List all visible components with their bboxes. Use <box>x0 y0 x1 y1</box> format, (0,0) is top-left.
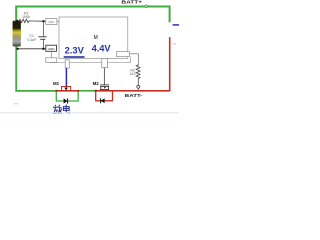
svg-text:.......: ....... <box>76 36 87 40</box>
wire: rail red M2 to right edge <box>96 90 170 92</box>
node: green junction circle on top rail <box>145 5 148 8</box>
M1 body-diode loop (green) <box>56 91 78 101</box>
svg-text:M2: M2 <box>93 81 100 86</box>
svg-text:4.4V: 4.4V <box>92 44 111 54</box>
battery cell B1 <box>13 21 21 47</box>
wire: rail red across M1 <box>57 90 78 92</box>
wire: CS to R2 <box>129 54 138 65</box>
svg-text:VDD: VDD <box>48 20 55 24</box>
capacitor C1 <box>42 21 44 36</box>
resistor R1 <box>17 19 46 22</box>
wire: cell negative down + bottom rail (green) <box>16 46 58 91</box>
svg-text:1K2: 1K2 <box>130 72 136 76</box>
M2 body-diode loop (red) <box>96 91 113 101</box>
node: red dot M1 loop right <box>77 90 79 92</box>
svg-text:M: M <box>94 35 98 41</box>
svg-text:100k: 100k <box>22 15 30 19</box>
wire: stub GND box to lower box <box>51 51 53 58</box>
label: blue underline bar <box>64 56 85 58</box>
svg-text:M1: M1 <box>53 81 60 86</box>
wire: M1 gate (blue) <box>65 68 67 86</box>
wire: BATT+ top rail (green) <box>16 7 169 47</box>
battery terminal tick (faint) <box>173 42 176 45</box>
svg-text:0.1uF: 0.1uF <box>28 38 37 42</box>
divider line at bottom <box>0 112 179 113</box>
node: red dot M1 loop left <box>55 90 57 92</box>
node: junction dot R1 left on green rail <box>16 20 18 22</box>
diode D2 (body diode of M2) <box>101 98 105 103</box>
faint minus mark near cell bottom <box>14 103 18 104</box>
pin VDD box <box>46 19 57 25</box>
node: junction dot GND-left <box>16 48 18 50</box>
svg-text:2.3V: 2.3V <box>65 46 84 56</box>
wire: BATT- right riser (red) <box>169 37 171 91</box>
pin GND box <box>46 45 57 51</box>
wire: R2 circle to BATT- rail stub <box>137 88 139 90</box>
transistor M1 (red symbol) <box>62 87 71 91</box>
wire: GND run from cell to GND pin <box>17 48 46 50</box>
label 放电 (discharge) hand-drawn glyphs <box>53 105 62 114</box>
wire: long gray net along IC bottom <box>51 57 131 63</box>
svg-text:GND: GND <box>48 47 56 51</box>
transistor M2 (dark symbol) <box>100 84 109 86</box>
wire: rail green M1 to M2 junction <box>78 90 96 92</box>
transistor M1 arrow <box>65 87 67 90</box>
resistor R2 <box>136 64 140 85</box>
pin OC box (to M2 gate) <box>102 58 108 67</box>
diode D1 (body diode of M1) <box>64 98 68 103</box>
transistor M2 arrow <box>104 87 106 89</box>
pin box below GND <box>46 58 57 63</box>
svg-text:BATT+: BATT+ <box>121 0 142 5</box>
node: junction dot VDD/C1 top <box>42 20 44 22</box>
wire: VDD stub <box>57 21 59 23</box>
node: junction dot where green meets M2 red <box>95 90 97 92</box>
node: open circle R2 to BATT- rail <box>137 85 140 88</box>
svg-text:BATT-: BATT- <box>125 93 143 98</box>
battery terminal mark (blue dash, right edge) <box>173 24 179 26</box>
node: junction dot C1 bottom <box>42 48 44 50</box>
pin CS box <box>117 52 130 57</box>
pin OD box (to M1 gate) <box>65 60 69 68</box>
wire: M2 gate (gray) <box>103 68 105 85</box>
IC U1 body <box>59 17 128 58</box>
